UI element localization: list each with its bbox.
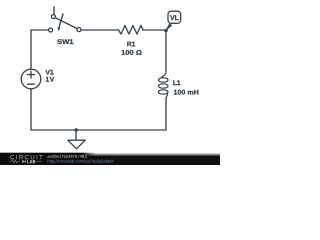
wire switch to resistor bbox=[81, 29, 119, 31]
wire top-left horizontal (corner to switch left terminal) bbox=[31, 29, 48, 31]
ground triangle bbox=[68, 140, 85, 149]
wire right vertical upper (corner to L1 top) bbox=[165, 30, 167, 72]
value 100 Ohm bbox=[122, 50, 142, 55]
ground bbox=[68, 128, 85, 149]
wire resistor to top-right corner bbox=[143, 29, 166, 31]
label VL bbox=[170, 15, 179, 20]
flag pointer bbox=[166, 24, 172, 31]
value 100 mH bbox=[174, 90, 199, 95]
coil turns bbox=[158, 71, 168, 98]
plus sign bbox=[28, 71, 35, 78]
value 1 V bbox=[46, 77, 54, 82]
label V1 bbox=[45, 70, 53, 75]
voltage source V1 bbox=[21, 69, 54, 89]
switch lever bbox=[55, 18, 77, 29]
junction dot node VL bbox=[164, 29, 168, 33]
terminal circle right bbox=[77, 28, 81, 32]
actuation arrow bbox=[59, 14, 63, 27]
label SW1 bbox=[57, 39, 73, 44]
throw terminal stub bbox=[53, 7, 55, 15]
label R1 bbox=[127, 42, 135, 47]
resistor R1 bbox=[119, 26, 144, 55]
minus sign bbox=[28, 83, 34, 85]
wire bottom horizontal bbox=[31, 129, 166, 131]
flag box bbox=[168, 11, 181, 23]
junction dot ground bbox=[74, 128, 77, 131]
ground stub bbox=[75, 130, 77, 140]
switch SW1 bbox=[49, 7, 81, 44]
wire left vertical upper (corner to V1 top) bbox=[30, 30, 32, 69]
terminal circle top bbox=[51, 15, 55, 19]
wire left vertical lower (V1 bottom to corner) bbox=[30, 89, 32, 130]
terminal circle left bbox=[49, 28, 53, 32]
source circle bbox=[21, 69, 41, 89]
node VL flag bbox=[164, 11, 181, 32]
inductor L1 bbox=[158, 71, 198, 98]
label L1 bbox=[173, 80, 180, 85]
wire right vertical lower (L1 bottom to corner) bbox=[165, 98, 167, 130]
